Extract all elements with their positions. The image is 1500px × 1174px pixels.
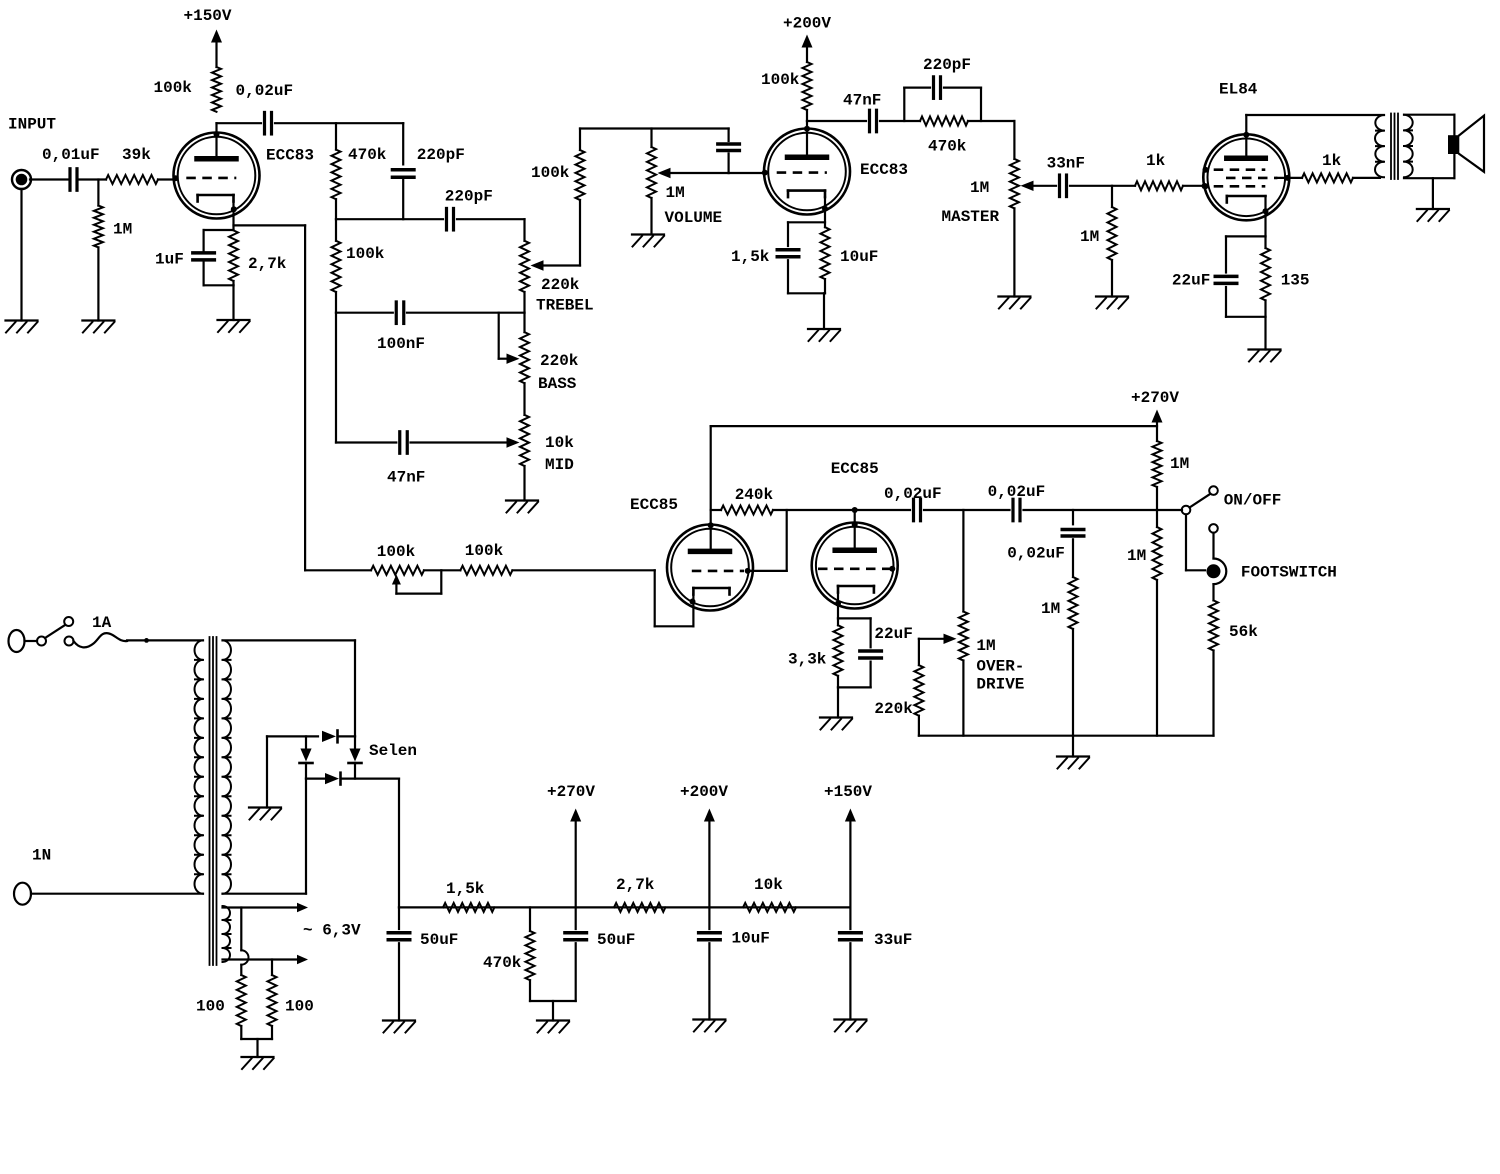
resistor 1M (grid leak) bbox=[94, 206, 132, 248]
wire bbox=[838, 662, 871, 718]
wire cathode lead V4 bbox=[837, 593, 839, 619]
svg-text:470k: 470k bbox=[928, 138, 967, 156]
wire bbox=[575, 821, 577, 929]
svg-text:100: 100 bbox=[196, 998, 225, 1016]
wire bbox=[1226, 236, 1266, 349]
svg-text:1M: 1M bbox=[970, 179, 989, 197]
wire bbox=[962, 510, 964, 736]
svg-text:+270V: +270V bbox=[547, 783, 595, 801]
ground bbox=[242, 1057, 274, 1069]
wire plate lead bbox=[806, 121, 808, 157]
wire plate lead bbox=[1245, 115, 1247, 158]
capacitor 0,02uF (od 1) bbox=[884, 485, 942, 521]
resistor 100k (tone) bbox=[332, 241, 385, 292]
svg-text:470k: 470k bbox=[348, 146, 387, 164]
svg-text:220k: 220k bbox=[541, 276, 580, 294]
triode U2 ECC83 (V1b) bbox=[764, 129, 908, 215]
wire bbox=[203, 230, 205, 252]
svg-text:220k: 220k bbox=[874, 700, 913, 718]
potentiometer 1M VOLUME bbox=[647, 147, 722, 227]
resistor 1,5k (cathode) bbox=[821, 227, 830, 279]
potentiometer 100k (mix) bbox=[371, 543, 424, 575]
potentiometer 1M OVERDRIVE bbox=[959, 612, 1025, 694]
ground bbox=[1096, 297, 1128, 309]
resistor 100k (plate) bbox=[761, 62, 812, 110]
potentiometer 1M MASTER bbox=[942, 159, 1019, 226]
wire bbox=[79, 178, 106, 180]
svg-text:100k: 100k bbox=[154, 79, 193, 97]
wire bbox=[97, 247, 99, 320]
svg-text:0,02uF: 0,02uF bbox=[884, 485, 942, 503]
wire cathode lead V3 bbox=[692, 595, 694, 627]
svg-text:1k: 1k bbox=[1146, 152, 1166, 170]
wire rail2 bbox=[580, 127, 729, 129]
diode D3 bbox=[349, 736, 362, 778]
wire bbox=[869, 618, 871, 647]
wire plate lead V3 bbox=[710, 426, 712, 549]
ground bbox=[1417, 209, 1449, 221]
wire 470k branch bbox=[529, 907, 531, 931]
wire plate rail bbox=[1246, 114, 1384, 116]
svg-text:135: 135 bbox=[1281, 271, 1310, 289]
wire bbox=[203, 260, 205, 285]
wire grid bbox=[751, 510, 787, 571]
capacitor 100nF (bass) bbox=[377, 302, 425, 353]
potentiometer 220k TREBEL bbox=[520, 241, 594, 315]
resistor 1M (grid) bbox=[1080, 207, 1117, 260]
svg-text:BASS: BASS bbox=[538, 375, 577, 393]
wire bbox=[20, 189, 22, 321]
wire bbox=[849, 821, 851, 929]
svg-text:2,7k: 2,7k bbox=[248, 255, 287, 273]
node cathode dot bbox=[1263, 208, 1269, 214]
capacitor 10uF (bypass) bbox=[731, 248, 878, 266]
node cathode dot bbox=[835, 601, 841, 607]
resistor 1M (od right) bbox=[1127, 527, 1162, 580]
svg-text:+150V: +150V bbox=[184, 7, 232, 25]
wire bbox=[924, 509, 1010, 511]
svg-text:1M: 1M bbox=[1041, 600, 1060, 618]
wire bbox=[398, 907, 400, 929]
resistor 2,7k (filter) bbox=[614, 876, 665, 912]
resistor 470k bbox=[332, 146, 387, 199]
transformer T1 secondary HV bbox=[223, 640, 232, 893]
resistor 100k (treble feed) bbox=[531, 150, 585, 200]
svg-text:1M: 1M bbox=[666, 184, 685, 202]
triode U5 ECC85 (V3b) bbox=[812, 460, 898, 608]
wire plate lead V4 bbox=[854, 510, 856, 548]
wire bbox=[523, 466, 525, 501]
resistor 1k (screen) bbox=[1302, 152, 1353, 182]
wire cathode lead bbox=[1264, 196, 1266, 236]
wire bbox=[1226, 236, 1266, 272]
svg-text:470k: 470k bbox=[483, 954, 522, 972]
svg-text:100k: 100k bbox=[465, 542, 504, 560]
wire bass wiper bbox=[499, 313, 520, 364]
wire bbox=[204, 281, 234, 320]
node plate dot bbox=[1243, 132, 1249, 138]
wire cathode lead bbox=[824, 197, 826, 227]
resistor 39k bbox=[106, 146, 158, 184]
diode D1 bbox=[322, 731, 355, 743]
capacitor 220pF (treble) bbox=[445, 188, 493, 230]
resistor 1k (grid stopper) bbox=[1135, 152, 1183, 190]
resistor 10k (filter) bbox=[743, 876, 796, 912]
resistor 470k (bleed) bbox=[483, 931, 535, 980]
svg-text:ON/OFF: ON/OFF bbox=[1224, 492, 1282, 510]
wire bbox=[127, 639, 203, 641]
resistor 100k (mix series) bbox=[460, 542, 512, 575]
wire +270V rail bbox=[711, 425, 1157, 427]
svg-text:2,7k: 2,7k bbox=[616, 876, 655, 894]
capacitor 22uF (cathode) bbox=[1172, 271, 1237, 289]
ground bbox=[693, 1020, 725, 1032]
pentode U3 EL84 bbox=[1203, 81, 1289, 221]
wire bbox=[25, 640, 38, 642]
svg-text:1M: 1M bbox=[1080, 228, 1099, 246]
svg-text:TREBEL: TREBEL bbox=[536, 297, 594, 315]
transformer core bbox=[1391, 114, 1398, 180]
wire bbox=[31, 893, 203, 895]
svg-text:INPUT: INPUT bbox=[8, 116, 56, 134]
mains plug N bbox=[14, 847, 51, 905]
node grid2 dot bbox=[762, 170, 768, 176]
node screen dot bbox=[1285, 175, 1291, 181]
wire cathode lead bbox=[232, 201, 234, 230]
svg-text:100k: 100k bbox=[531, 164, 570, 182]
ground bbox=[1057, 757, 1089, 769]
wire bbox=[275, 122, 403, 124]
wire bbox=[1212, 584, 1214, 600]
resistor 1M (bleed top) bbox=[1153, 441, 1190, 487]
resistor 135 (cathode) bbox=[1261, 248, 1310, 300]
diode D2 bbox=[300, 736, 313, 778]
wire bbox=[880, 120, 920, 122]
wire bbox=[708, 821, 710, 929]
wire bbox=[650, 129, 652, 235]
wire bbox=[335, 123, 337, 219]
power +150V bbox=[184, 7, 232, 42]
svg-text:ECC85: ECC85 bbox=[831, 460, 879, 478]
wire bbox=[1070, 185, 1135, 187]
svg-text:22uF: 22uF bbox=[1172, 271, 1210, 289]
power +200V bbox=[783, 15, 831, 48]
svg-text:1M: 1M bbox=[113, 221, 132, 239]
svg-text:1A: 1A bbox=[92, 614, 112, 632]
capacitor 0,02uF (od 3) bbox=[1007, 530, 1084, 563]
wire node3 bbox=[336, 312, 393, 314]
node plate dot bbox=[708, 522, 714, 528]
wire bbox=[729, 154, 763, 174]
wire bbox=[523, 313, 525, 415]
wire bbox=[402, 180, 404, 220]
wire input bbox=[305, 569, 371, 571]
node cathode dot bbox=[690, 599, 696, 605]
wire bbox=[1024, 509, 1183, 511]
svg-text:10uF: 10uF bbox=[732, 930, 770, 948]
svg-text:1M: 1M bbox=[1127, 547, 1146, 565]
wire hop over bbox=[241, 908, 248, 976]
transformer T2 secondary bbox=[1404, 115, 1413, 178]
svg-text:Selen: Selen bbox=[369, 742, 417, 760]
triode U4 ECC85 (V3a) bbox=[630, 496, 753, 610]
wire bbox=[512, 569, 654, 571]
ground bbox=[808, 329, 840, 341]
svg-text:10k: 10k bbox=[754, 876, 783, 894]
wire bbox=[1156, 510, 1158, 736]
wire bbox=[837, 676, 839, 688]
wire B+ rail bbox=[399, 906, 850, 908]
node grid dot bbox=[1203, 183, 1209, 189]
wire bbox=[727, 129, 729, 142]
svg-text:1uF: 1uF bbox=[155, 251, 184, 269]
wire bbox=[271, 960, 273, 976]
label Selen bbox=[369, 742, 417, 760]
svg-text:3,3k: 3,3k bbox=[788, 651, 827, 669]
svg-text:ECC85: ECC85 bbox=[630, 496, 678, 514]
wire bbox=[30, 178, 68, 180]
capacitor 10uF (200V) bbox=[699, 930, 770, 948]
svg-text:47nF: 47nF bbox=[843, 92, 881, 110]
svg-text:~ 6,3V: ~ 6,3V bbox=[303, 922, 361, 940]
resistor 1M (od mid) bbox=[1041, 577, 1078, 629]
wire 220pF loop bbox=[904, 88, 930, 121]
wire bbox=[655, 570, 694, 626]
resistor 1,5k (filter) bbox=[443, 880, 494, 912]
svg-text:VOLUME: VOLUME bbox=[665, 209, 723, 227]
svg-text:22uF: 22uF bbox=[874, 625, 912, 643]
capacitor 0,02uF (od 2) bbox=[988, 483, 1046, 521]
wire bbox=[1353, 177, 1380, 179]
capacitor 33uF (150V) bbox=[840, 931, 913, 949]
transformer T1 heater 6,3V bbox=[223, 906, 231, 962]
wire bridge top bbox=[267, 735, 318, 737]
wire bbox=[335, 313, 337, 443]
wire bbox=[215, 42, 217, 67]
svg-text:10k: 10k bbox=[545, 434, 574, 452]
capacitor 47nF (mid) bbox=[387, 432, 425, 487]
svg-text:1M: 1M bbox=[976, 637, 995, 655]
resistor 470k (feedback) bbox=[920, 117, 968, 156]
wire bbox=[398, 943, 400, 1020]
wire bbox=[918, 716, 920, 736]
wire bbox=[849, 943, 851, 1019]
wire bbox=[1225, 287, 1227, 317]
wire wiper feed bbox=[919, 634, 957, 666]
svg-text:10uF: 10uF bbox=[840, 248, 878, 266]
potentiometer 10k MID bbox=[520, 415, 574, 474]
resistor 100k (plate) bbox=[154, 67, 222, 112]
resistor 220k bbox=[874, 665, 923, 718]
wire bottom bus bbox=[919, 735, 1214, 737]
wire bbox=[402, 123, 404, 164]
wire bbox=[234, 224, 306, 226]
resistor 240k bbox=[721, 486, 774, 514]
speaker LS1 bbox=[1448, 116, 1484, 172]
ground bbox=[537, 1021, 569, 1033]
svg-text:ECC83: ECC83 bbox=[860, 161, 908, 179]
triode U1 ECC83 (V1a) bbox=[174, 133, 315, 219]
capacitor 33nF bbox=[1047, 155, 1085, 197]
wire bbox=[335, 219, 337, 313]
node grid dot bbox=[889, 566, 895, 572]
wire B+ riser bbox=[398, 779, 400, 908]
capacitor 47nF bbox=[843, 92, 881, 132]
svg-text:OVER-: OVER- bbox=[976, 658, 1024, 676]
wire bbox=[788, 222, 825, 246]
transformer T1 core bbox=[210, 637, 217, 965]
resistor 100 (humdinger R) bbox=[268, 975, 314, 1026]
wire bbox=[1111, 186, 1113, 297]
svg-text:50uF: 50uF bbox=[597, 931, 635, 949]
svg-text:33uF: 33uF bbox=[874, 931, 912, 949]
svg-text:+200V: +200V bbox=[680, 783, 728, 801]
wire bbox=[457, 218, 525, 220]
resistor 2,7k (cathode) bbox=[229, 230, 287, 281]
wire node2 bbox=[336, 218, 443, 220]
svg-text:1,5k: 1,5k bbox=[446, 880, 485, 898]
wire bbox=[407, 312, 525, 314]
wire bbox=[1212, 651, 1214, 736]
switch ON/OFF bbox=[1182, 486, 1282, 514]
node cathode2 dot bbox=[822, 206, 828, 212]
transformer T1 primary bbox=[194, 640, 203, 893]
svg-text:50uF: 50uF bbox=[420, 931, 458, 949]
wire bbox=[241, 1026, 272, 1057]
wire bbox=[530, 980, 576, 1020]
capacitor 22uF (bypass) bbox=[860, 625, 913, 658]
node plate dot bbox=[852, 507, 858, 513]
node dot bbox=[144, 638, 149, 643]
svg-text:MASTER: MASTER bbox=[942, 208, 1000, 226]
wire plate lead bbox=[215, 123, 217, 156]
svg-text:1M: 1M bbox=[1170, 455, 1189, 473]
wire heater bottom bbox=[223, 955, 309, 965]
wire bbox=[266, 736, 268, 807]
wire bbox=[1072, 539, 1074, 577]
ground bbox=[249, 808, 281, 820]
wire HV top bbox=[223, 640, 356, 736]
svg-text:100nF: 100nF bbox=[377, 335, 425, 353]
resistor 100 (humdinger L) bbox=[196, 975, 246, 1026]
wire bbox=[575, 943, 577, 1001]
svg-text:EL84: EL84 bbox=[1219, 81, 1258, 99]
power +150V (psu) bbox=[824, 783, 872, 821]
wire bbox=[1183, 185, 1204, 187]
resistor 3,3k (cathode) bbox=[788, 625, 843, 676]
wire bbox=[788, 279, 825, 329]
wire bbox=[968, 121, 1014, 159]
mains plug L bbox=[9, 630, 25, 652]
node suppressor dot bbox=[1203, 167, 1209, 173]
wire bbox=[1186, 515, 1205, 571]
capacitor 0,02uF (coupling) bbox=[236, 82, 294, 134]
wire bbox=[711, 509, 910, 511]
wire HV bottom bbox=[223, 779, 307, 894]
svg-text:0,01uF: 0,01uF bbox=[42, 146, 100, 164]
svg-text:100k: 100k bbox=[346, 245, 385, 263]
wire bbox=[1072, 510, 1074, 524]
wire bbox=[1013, 208, 1015, 296]
svg-text:33nF: 33nF bbox=[1047, 155, 1085, 173]
power +200V (psu) bbox=[680, 783, 728, 821]
svg-text:ECC83: ECC83 bbox=[266, 147, 314, 165]
wire heater top bbox=[223, 903, 309, 913]
svg-text:+150V: +150V bbox=[824, 783, 872, 801]
svg-text:0,02uF: 0,02uF bbox=[1007, 545, 1065, 563]
svg-text:0,02uF: 0,02uF bbox=[988, 483, 1046, 501]
node plate2 dot bbox=[804, 126, 810, 132]
wire bbox=[204, 229, 234, 231]
wire secondary loop bbox=[1404, 115, 1454, 179]
resistor 56k bbox=[1209, 600, 1258, 650]
svg-text:100k: 100k bbox=[761, 71, 800, 89]
wire bbox=[579, 129, 581, 266]
svg-text:+270V: +270V bbox=[1131, 389, 1179, 407]
potentiometer 220k BASS bbox=[520, 332, 579, 393]
switch mains bbox=[37, 617, 74, 646]
svg-text:100k: 100k bbox=[377, 543, 416, 561]
wire bbox=[523, 219, 525, 313]
wire bbox=[97, 180, 99, 206]
ground bbox=[6, 321, 38, 333]
wiper wire bbox=[1021, 181, 1057, 191]
power +270V (psu) bbox=[547, 783, 595, 821]
wire bbox=[158, 178, 175, 180]
node grid3 dot bbox=[1202, 183, 1208, 189]
capacitor 220pF (feedback) bbox=[923, 56, 971, 98]
svg-text:56k: 56k bbox=[1229, 623, 1258, 641]
capacitor 220pF (slope) bbox=[392, 146, 464, 177]
wire bbox=[708, 943, 710, 1019]
node plate1 dot bbox=[214, 131, 220, 137]
capacitor 0,01uF bbox=[42, 146, 100, 190]
svg-text:1,5k: 1,5k bbox=[731, 248, 770, 266]
wiper wire bbox=[531, 260, 581, 270]
fuse 1A bbox=[74, 614, 128, 647]
wire bbox=[787, 260, 789, 293]
node grid1 dot bbox=[173, 175, 179, 181]
wire bbox=[1156, 422, 1158, 441]
svg-text:39k: 39k bbox=[122, 146, 151, 164]
ground bbox=[998, 297, 1030, 309]
jack FOOTSWITCH bbox=[1207, 524, 1337, 584]
svg-text:220pF: 220pF bbox=[417, 146, 465, 164]
svg-text:47nF: 47nF bbox=[387, 469, 425, 487]
ground bbox=[834, 1020, 866, 1032]
wiper wire bbox=[658, 168, 729, 178]
wire bridge bottom bbox=[306, 777, 324, 779]
label INPUT bbox=[8, 116, 56, 134]
node plate exit dot bbox=[852, 522, 858, 528]
wire node4 bbox=[336, 441, 396, 443]
svg-text:MID: MID bbox=[545, 456, 574, 474]
wire bbox=[838, 618, 871, 625]
svg-text:0,02uF: 0,02uF bbox=[236, 82, 294, 100]
input jack J1 bbox=[12, 170, 31, 189]
wire bbox=[424, 569, 460, 571]
ground bbox=[820, 718, 852, 730]
svg-text:1N: 1N bbox=[32, 847, 51, 865]
svg-text:220k: 220k bbox=[540, 352, 579, 370]
svg-text:FOOTSWITCH: FOOTSWITCH bbox=[1241, 564, 1337, 582]
wire bbox=[217, 122, 262, 124]
wire feed from V1 cathode bbox=[304, 225, 306, 570]
svg-text:240k: 240k bbox=[735, 486, 774, 504]
wire bbox=[1432, 178, 1434, 209]
wire bbox=[411, 437, 520, 447]
node cathode1 dot bbox=[231, 206, 237, 212]
